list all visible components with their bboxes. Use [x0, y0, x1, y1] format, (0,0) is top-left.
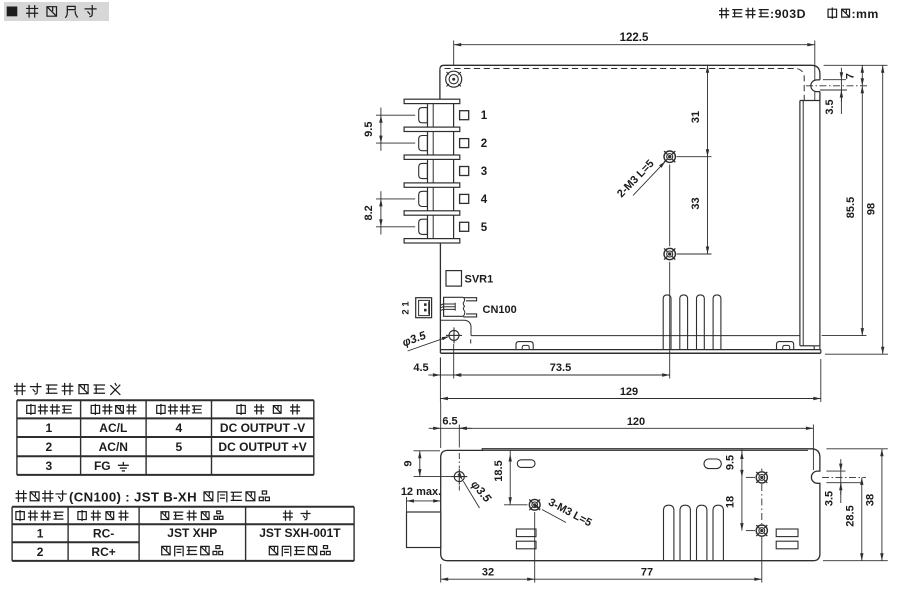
svg-text:9: 9 — [403, 460, 415, 466]
svg-text:2: 2 — [401, 309, 412, 314]
svg-text:122.5: 122.5 — [620, 32, 649, 44]
table2 headers — [16, 511, 24, 521]
svg-text:DC OUTPUT -V: DC OUTPUT -V — [220, 421, 305, 435]
3-M3 leader — [542, 510, 566, 523]
svg-text:38: 38 — [865, 494, 877, 506]
mounting rail right side — [800, 100, 820, 102]
header title bar 机构尺寸 — [4, 2, 109, 21]
CN100 pins — [441, 304, 455, 305]
3-M3 screw hole side view — [529, 499, 540, 510]
svg-text:18: 18 — [725, 496, 737, 508]
table2 title 遥控开关 CN100 — [16, 491, 26, 502]
side screws centerline — [761, 469, 763, 472]
terminal block bar 5 — [404, 211, 460, 215]
dim 18.5 — [509, 450, 511, 504]
top view left edge upper — [439, 69, 441, 99]
CN100 connector — [444, 297, 464, 316]
phi3.5 label — [401, 330, 428, 350]
svg-text:85.5: 85.5 — [845, 197, 857, 218]
terminal contact 5 — [419, 219, 428, 234]
terminal contact 2 — [419, 136, 428, 151]
terminal block bar 2 — [404, 127, 460, 131]
svg-text:120: 120 — [627, 416, 645, 428]
dim 120 — [812, 425, 814, 471]
flange joint mark — [470, 339, 472, 343]
top view dashed cover line — [445, 69, 805, 101]
SVR1 potentiometer — [446, 271, 462, 287]
svg-text:4: 4 — [481, 194, 488, 206]
side screw centerline vertical — [458, 425, 460, 448]
terminal contact 1 — [419, 108, 428, 123]
pin square 5 — [460, 222, 469, 231]
dim 73.5 — [454, 374, 670, 376]
dim 3.5 right top — [823, 79, 846, 81]
svg-text:2: 2 — [37, 545, 44, 559]
dim 38 — [826, 448, 887, 450]
dim 3.5 side right — [826, 470, 845, 472]
rail bottom tab — [814, 346, 820, 350]
svg-text:1: 1 — [481, 110, 488, 122]
dim 77 — [535, 578, 762, 580]
dim 9.5 side — [741, 449, 743, 478]
table1 headers — [27, 404, 35, 414]
svg-text:4: 4 — [175, 421, 182, 435]
svg-text:5: 5 — [175, 440, 182, 454]
terminal block bar 4 — [404, 183, 460, 187]
terminal block body — [428, 99, 454, 243]
side oblong hole left — [517, 460, 535, 468]
svg-text:1: 1 — [401, 301, 412, 307]
svg-text:12 max.: 12 max. — [401, 486, 441, 498]
svg-text::mm: :mm — [852, 7, 879, 21]
remote plug 2-pin — [416, 298, 432, 318]
top view keyhole notch right — [811, 80, 820, 92]
svg-text:5: 5 — [481, 222, 488, 234]
centerline between M3 screws — [669, 165, 671, 247]
pin square 1 — [460, 111, 469, 120]
phi3.5 screw hole bottom-left — [446, 327, 462, 343]
svg-text:98: 98 — [866, 203, 878, 215]
top view inner flange line — [471, 335, 800, 337]
svg-text:DC OUTPUT +V: DC OUTPUT +V — [218, 440, 306, 454]
top view right edge below notch — [819, 92, 821, 101]
svg-text:77: 77 — [641, 567, 653, 579]
dim 18 side — [741, 477, 743, 530]
svg-text:2: 2 — [45, 440, 52, 454]
phi3.5 leader — [408, 337, 448, 351]
side phi3.5 leader — [463, 481, 479, 508]
table2 remote switch — [12, 507, 354, 561]
terminal block bar 1 — [404, 99, 460, 103]
svg-text:1: 1 — [37, 527, 44, 541]
vent slots top view — [663, 295, 671, 350]
chassis top-left screw — [446, 71, 462, 87]
svg-text:AC/N: AC/N — [99, 440, 128, 454]
svg-text:9.5: 9.5 — [363, 122, 375, 137]
svg-text:CN100: CN100 — [483, 304, 517, 316]
svg-text:4.5: 4.5 — [413, 362, 428, 374]
2-M3 screw hole lower — [664, 248, 675, 259]
dim 33 — [707, 157, 709, 254]
2-M3 screw hole upper — [664, 151, 675, 162]
dim 9 left — [414, 450, 441, 452]
side vents right pair — [776, 529, 798, 537]
top view inner step at phi3.5 hole — [440, 320, 471, 335]
svg-text:JST XHP: JST XHP — [167, 526, 217, 540]
svg-text:3.5: 3.5 — [824, 99, 836, 114]
side view cover seam line — [482, 449, 808, 451]
svg-text:(CN100) : JST B-XH: (CN100) : JST B-XH — [69, 489, 197, 504]
dim 6.5 — [440, 402, 442, 448]
table1 terminal pin definition — [17, 400, 314, 475]
svg-text:33: 33 — [690, 197, 702, 209]
side vent slots fins — [664, 505, 674, 561]
side phi3.5 screw hole — [451, 469, 467, 485]
top-right note 机壳型号:903D 单位:mm — [720, 8, 729, 17]
dim 122.5 overall top — [453, 41, 455, 67]
svg-text:3.5: 3.5 — [824, 491, 836, 506]
side view chassis outline — [441, 449, 820, 561]
2-M3 label leader — [633, 162, 665, 195]
dim 32 — [440, 564, 442, 583]
svg-text:RC-: RC- — [93, 527, 114, 541]
svg-text:1: 1 — [45, 421, 52, 435]
svg-text:32: 32 — [482, 567, 494, 579]
svg-text:SVR1: SVR1 — [465, 274, 494, 286]
dim 8.2 terminal pitch — [376, 198, 415, 200]
svg-text::903D: :903D — [770, 7, 806, 21]
side oblong hole right — [704, 459, 721, 469]
pin square 4 — [460, 194, 469, 203]
svg-text:6.5: 6.5 — [442, 416, 457, 428]
svg-text:3: 3 — [45, 459, 52, 473]
svg-text:3: 3 — [481, 166, 487, 178]
side view right screws — [756, 472, 767, 483]
extension line below lower screw to dims — [669, 262, 671, 379]
side phi3.5 label — [468, 479, 493, 506]
pin square 3 — [460, 167, 469, 176]
dim 85.5 — [822, 335, 867, 337]
svg-text:31: 31 — [690, 111, 702, 123]
3-M3 ext line down — [534, 512, 536, 583]
pin square 2 — [460, 139, 469, 148]
bottom tabs top view — [516, 342, 533, 350]
dim 28.5 — [822, 476, 866, 478]
svg-text:28.5: 28.5 — [845, 505, 857, 526]
dim 129 — [439, 358, 441, 403]
svg-text:18.5: 18.5 — [493, 460, 505, 481]
dim 4.5 — [439, 358, 441, 379]
svg-text:JST SXH-001T: JST SXH-001T — [259, 526, 341, 540]
top view chassis outline — [440, 65, 820, 80]
svg-text:FG: FG — [94, 459, 111, 473]
svg-text:2: 2 — [481, 138, 487, 150]
terminal block bar 3 — [404, 155, 460, 159]
terminal contact 4 — [419, 191, 428, 206]
table1 title 端子台脚位定义 — [15, 384, 25, 395]
side view left protrusion block — [407, 512, 441, 548]
top view left edge lower — [439, 243, 441, 353]
terminal contact 3 — [419, 163, 428, 178]
svg-text:129: 129 — [620, 386, 638, 398]
svg-text:8.2: 8.2 — [363, 205, 375, 220]
svg-text:RC+: RC+ — [91, 545, 115, 559]
side vents left pair — [516, 529, 536, 537]
dim 7 right top — [824, 64, 888, 66]
dim 9.5 terminal pitch — [376, 114, 415, 116]
svg-text:73.5: 73.5 — [550, 362, 571, 374]
svg-text:9.5: 9.5 — [725, 455, 737, 470]
svg-text:AC/L: AC/L — [99, 421, 127, 435]
svg-text:7: 7 — [845, 73, 857, 79]
terminal block bar 6 — [404, 239, 460, 243]
top view bottom flange lines — [440, 349, 820, 351]
dim 31 — [707, 65, 709, 156]
dim 98 — [825, 353, 888, 355]
